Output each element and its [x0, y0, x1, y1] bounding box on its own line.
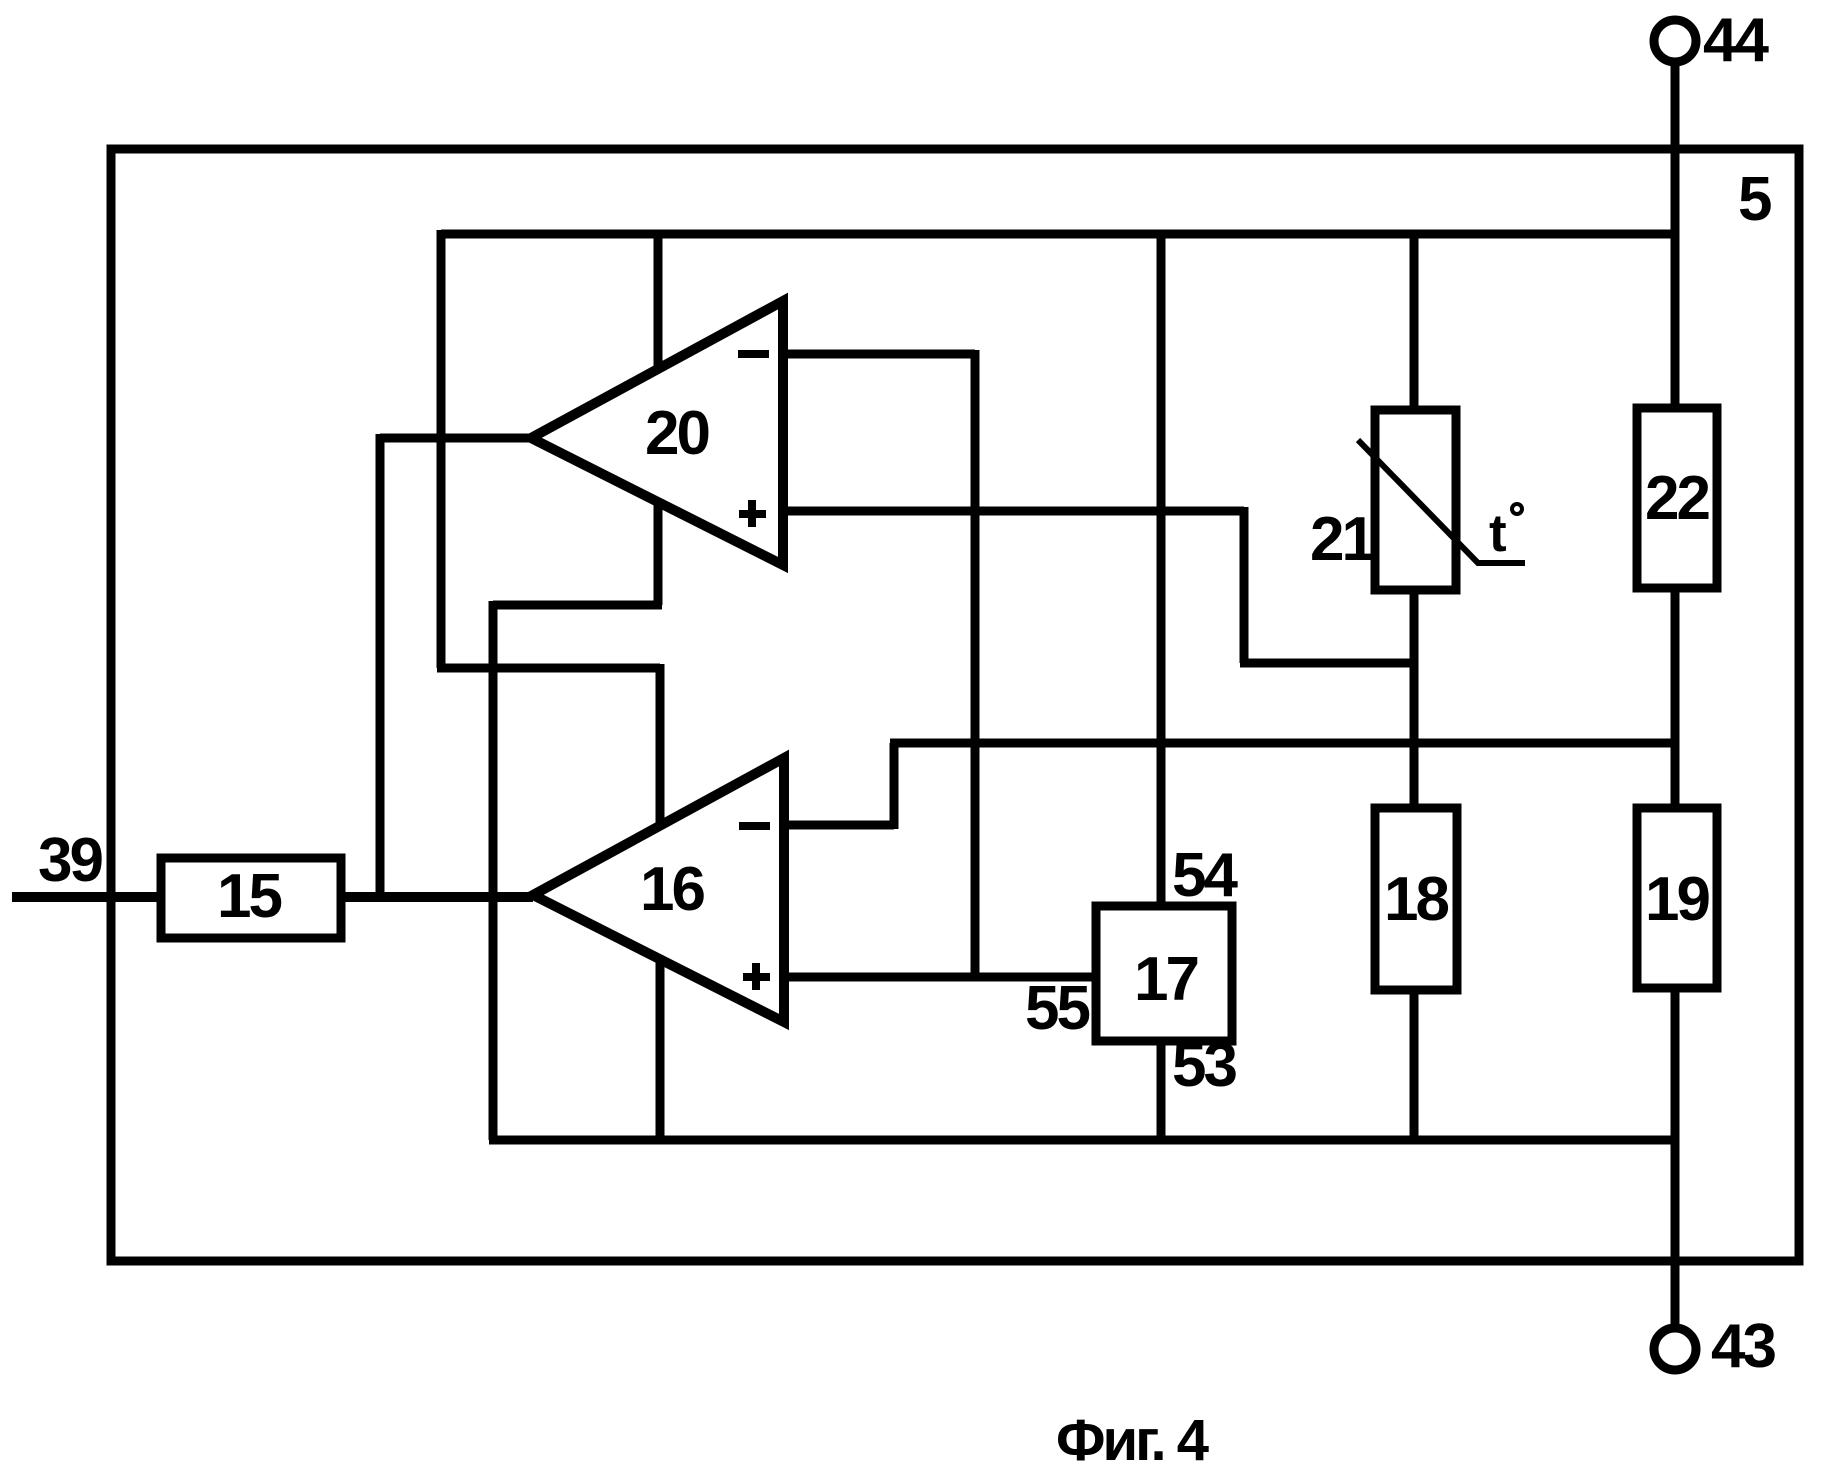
- svg-text:43: 43: [1711, 1312, 1775, 1381]
- svg-text:21: 21: [1310, 505, 1374, 574]
- svg-text:15: 15: [217, 862, 281, 931]
- op-amp 20: [531, 301, 783, 565]
- resistor 19: [1637, 808, 1717, 988]
- wire: op-amp 16 inverting input horizontal: [784, 821, 894, 830]
- wire: vertical x493 down to inner bottom bus: [489, 601, 498, 1140]
- svg-text:17: 17: [1134, 945, 1197, 1014]
- svg-text:20: 20: [645, 399, 708, 468]
- resistor 15: [161, 858, 341, 938]
- wire: vertical x1414 thermistor 21 to resistor 18: [1410, 590, 1419, 808]
- terminal 43: [1654, 1328, 1696, 1370]
- wire: vertical x975 from op-amp 20 minus down to node 55 line: [971, 350, 980, 977]
- wire: vertical x658 from top bus down through op-amp 20: [654, 234, 663, 605]
- wire: horizontal jog y668: [437, 664, 660, 673]
- svg-text:Фиг. 4: Фиг. 4: [1056, 1408, 1209, 1472]
- wire: vertical x1675 resistor 19 to terminal 43: [1671, 988, 1680, 1326]
- wire: op-amp 20 non-inverting input horizontal: [783, 507, 1244, 516]
- wire: op-amp 20 inverting input horizontal: [783, 350, 975, 359]
- resistor 22: [1637, 408, 1717, 588]
- svg-text:44: 44: [1703, 6, 1769, 75]
- wire: inner top bus line: [441, 230, 1675, 239]
- thermistor 21 diagonal: [1358, 440, 1525, 563]
- op-amp 16: [533, 758, 784, 1022]
- svg-text:18: 18: [1384, 865, 1448, 934]
- wire: vertical x1161 from top bus to block 17 (node 54): [1157, 234, 1166, 906]
- resistor 18: [1375, 808, 1457, 990]
- wire: step-down vertical x1244: [1240, 507, 1249, 663]
- wire: vertical x1161 block 17 to bottom bus (node 53): [1157, 1041, 1166, 1140]
- wire: feedback vertical x380 down to input line: [376, 434, 385, 897]
- svg-text:t: t: [1489, 504, 1507, 563]
- wire: vertical x1414 resistor 18 to bottom bus: [1410, 990, 1419, 1140]
- wire: vertical x660 from jog down to inner bottom bus: [656, 664, 665, 1140]
- wire: step vertical x894: [890, 743, 899, 829]
- op-amp 20 minus sign: [738, 350, 769, 358]
- wire: long horizontal y743 to right branch: [890, 739, 1675, 748]
- svg-text:19: 19: [1645, 865, 1709, 934]
- svg-text:54: 54: [1172, 841, 1238, 910]
- svg-text:22: 22: [1645, 464, 1708, 533]
- thermistor 21 body: [1375, 410, 1456, 590]
- op-amp 16 plus sign: [743, 973, 770, 981]
- svg-text:53: 53: [1172, 1031, 1236, 1100]
- op-amp 20 plus sign: [739, 510, 766, 518]
- wire: vertical x1414 top bus to thermistor 21: [1410, 234, 1419, 410]
- wire: input line 39 to op-amp 16 apex: [12, 892, 533, 902]
- wire: horizontal jog y605: [493, 601, 662, 610]
- wire: step horizontal y663 to thermistor branch: [1240, 659, 1414, 668]
- wire: inner bottom bus line: [489, 1136, 1675, 1145]
- block 17: [1096, 906, 1232, 1041]
- terminal 44: [1654, 20, 1696, 62]
- wire: left vertical of inner loop x441: [437, 230, 446, 668]
- wire: vertical x1675 terminal 44 to resistor 22: [1671, 60, 1680, 408]
- svg-text:55: 55: [1025, 974, 1089, 1043]
- op-amp 16 minus sign: [739, 822, 770, 830]
- wire: op-amp 16 non-inverting input to block 17 (node 55): [784, 973, 1096, 982]
- degree mark of t: [1512, 504, 1522, 514]
- outer block 5 boundary: [111, 149, 1799, 1261]
- svg-text:16: 16: [640, 855, 704, 924]
- wire: op-amp 20 output to feedback vertical: [380, 434, 531, 443]
- svg-text:5: 5: [1738, 165, 1772, 234]
- wire: vertical x1675 resistor 22 to resistor 19: [1671, 588, 1680, 808]
- svg-text:39: 39: [38, 826, 102, 895]
